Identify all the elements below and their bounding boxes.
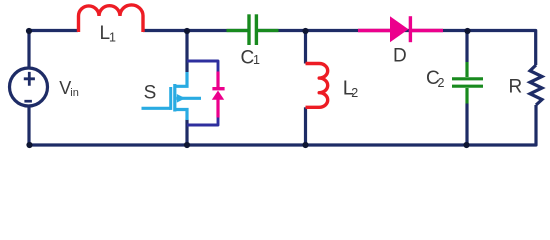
MOSFET S body line [177, 97, 202, 100]
MOSFET S channel bar [173, 84, 176, 112]
capacitor C1 right plate [255, 14, 258, 45]
svg-text:D: D [393, 46, 407, 67]
capacitor C2 upper lead [465, 62, 468, 77]
wire bottom rail [29, 105, 536, 145]
capacitor C2 bottom plate [452, 85, 483, 88]
wire top left: Vin top to L1 [29, 31, 78, 68]
inductor L2 coil [306, 64, 328, 108]
body diode triangle (pointing up) [212, 91, 224, 100]
voltage source V_in circle [10, 68, 48, 106]
MOSFET S source stub [175, 110, 187, 121]
svg-text:1: 1 [253, 53, 260, 67]
body diode cathode bar [212, 87, 224, 90]
MOSFET S gate lead [142, 107, 171, 110]
switch parallel branch purple wire top [187, 61, 218, 73]
diode D right lead [411, 29, 443, 33]
node dot bottom C2 [463, 142, 469, 148]
MOSFET S drain stub [175, 72, 187, 86]
wire L2 top vertical [304, 31, 307, 64]
capacitor C2 lower lead [465, 88, 468, 104]
svg-text:S: S [144, 83, 157, 104]
capacitor C1 right lead [258, 29, 279, 32]
node dot top-left corner [26, 28, 32, 34]
voltage source plus sign [24, 72, 35, 86]
wire switch source vertical [185, 120, 188, 146]
body diode lower lead [216, 99, 219, 118]
svg-text:2: 2 [438, 76, 445, 90]
svg-text:2: 2 [351, 86, 358, 100]
wire top right: C1 right plate to right corner, down to R [257, 31, 536, 66]
capacitor C1 left lead [227, 29, 248, 32]
wire L2 bottom vertical [304, 107, 307, 145]
wire switch drain vertical [185, 31, 188, 73]
node dot bottom-left corner [26, 142, 32, 148]
node dot bottom switch [184, 142, 190, 148]
capacitor C2 top plate [452, 77, 483, 80]
voltage source minus sign [24, 100, 32, 103]
MOSFET S gate bar [169, 87, 172, 110]
node dot top switch [184, 28, 190, 34]
resistor R zigzag [530, 65, 542, 105]
wire C2 top vertical [465, 31, 468, 63]
switch parallel branch purple wire bottom [187, 117, 218, 126]
body diode upper lead [216, 72, 219, 88]
svg-text:in: in [70, 87, 79, 99]
diode D triangle [390, 16, 408, 42]
node dot top C2 [464, 28, 470, 34]
MOSFET S body arrow [177, 94, 186, 103]
svg-text:R: R [509, 77, 523, 98]
capacitor C1 left plate [247, 14, 250, 45]
inductor L1 coil [78, 5, 143, 32]
svg-text:1: 1 [109, 31, 116, 45]
wire C2 bottom vertical [465, 104, 468, 146]
diode D cathode bar [409, 16, 412, 42]
node dot top L2 [302, 28, 308, 34]
node dot bottom L2 [302, 142, 308, 148]
wire top middle: L1 right to C1 left plate [143, 29, 249, 32]
diode D left lead [358, 29, 391, 33]
